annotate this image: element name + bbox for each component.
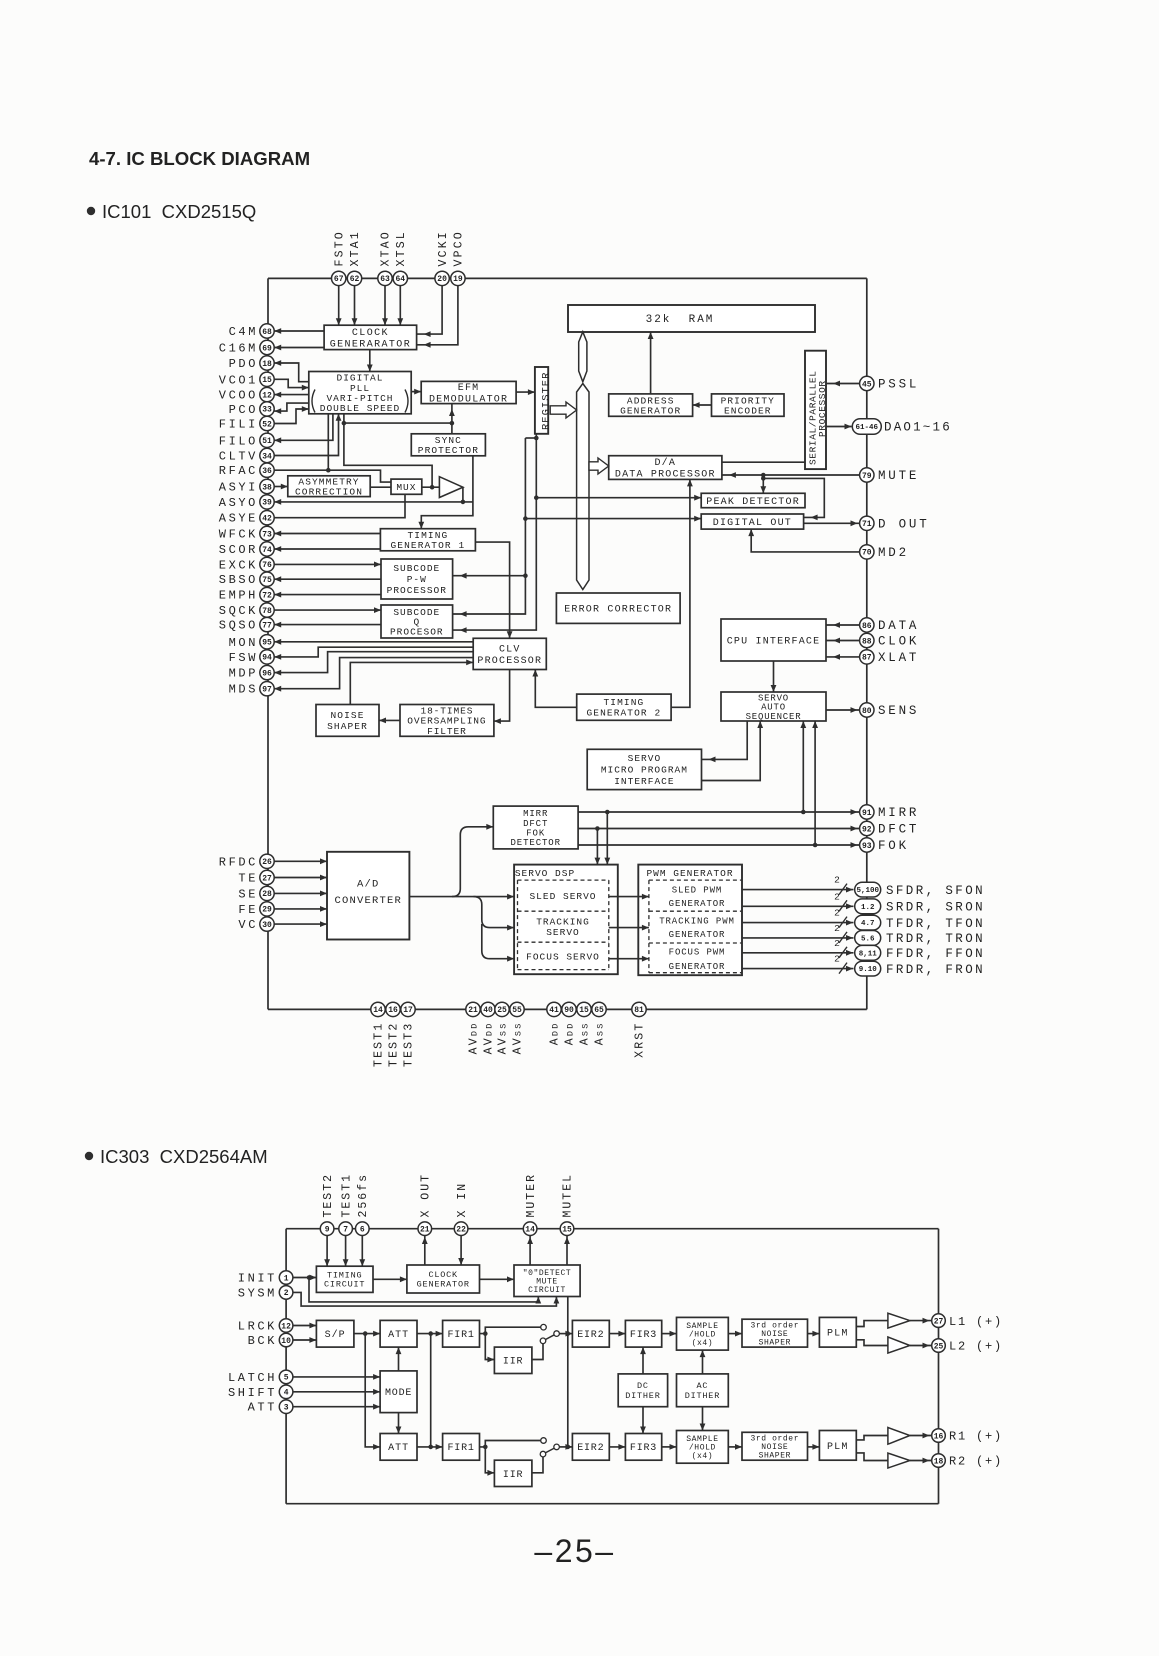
pin 81 XRST (bottom) <box>632 1002 647 1058</box>
pin 15 A<tspan style="font-size:8.5px">SS</tspan> (bottom) <box>577 1002 592 1045</box>
switch lower contact (R) <box>540 1451 546 1457</box>
wire: focus servo to focus PWM generator <box>609 958 649 960</box>
svg-text:GENERATOR: GENERATOR <box>417 1280 470 1290</box>
dashed partitions inside SERVO DSP <box>518 880 609 970</box>
box: EFM DEMODULATOR <box>421 381 516 405</box>
wire: pin 76 EXCK to subcode P-W processor <box>274 563 381 565</box>
pin 9.10 FRDR, FRON (servo output) <box>855 961 985 977</box>
wire: pin 15 VCO1 to PLL <box>274 379 309 387</box>
wire: register drop line B to subcode Q <box>453 434 537 630</box>
box: FIR3 (L) <box>625 1320 661 1347</box>
wire: PLL to EFM demodulator <box>411 391 421 393</box>
svg-text:51: 51 <box>262 437 272 446</box>
svg-text:FOCUS PWM: FOCUS PWM <box>669 948 726 958</box>
svg-text:PDO: PDO <box>229 357 258 371</box>
wire: top pin 63 XTAO to clock generator <box>384 286 386 326</box>
wire: FIR1 (L) output to switch upper contact <box>480 1327 541 1333</box>
svg-text:ASYI: ASYI <box>219 481 258 495</box>
svg-text:GENERARATOR: GENERARATOR <box>330 340 411 351</box>
svg-text:WFCK: WFCK <box>219 528 258 542</box>
pin 16 TEST2 (bottom) <box>386 1002 401 1067</box>
wire: MUTE branch to digital out right side <box>763 478 824 517</box>
wire: pin 52 FILI to PLL <box>274 409 309 424</box>
svg-text:ASYO: ASYO <box>219 496 258 510</box>
wire: pin 12 LRCK to S/P <box>293 1325 316 1327</box>
box: SAMPLE/HOLD x4 (R) <box>677 1431 729 1464</box>
svg-text:MIRR: MIRR <box>878 806 919 820</box>
box: DIGITAL PLL VARI-PITCH DOUBLE SPEED <box>309 372 411 415</box>
wire: pin 88 CLOK to CPU interface <box>826 640 860 642</box>
pin 55 AV<tspan style="font-size:8.5px">SS</tspan> (bottom) <box>510 1002 525 1054</box>
svg-text:DATA: DATA <box>878 619 919 633</box>
svg-text:39: 39 <box>262 499 272 508</box>
wire: oversampling filter to noise shaper <box>379 719 400 721</box>
svg-text:PROCESSOR: PROCESSOR <box>477 656 542 667</box>
wire: CPU interface to servo auto sequencer <box>773 661 775 692</box>
svg-text:45: 45 <box>862 380 872 389</box>
pin 14 TEST1 (bottom) <box>371 1002 386 1067</box>
wire: EFM demodulator to REGISTER <box>516 391 535 393</box>
wire: digital out to pin 71 D OUT <box>804 522 859 524</box>
box: PLM (L) <box>819 1317 856 1347</box>
svg-text:36: 36 <box>262 467 272 476</box>
svg-text:4-7. IC BLOCK DIAGRAM: 4-7. IC BLOCK DIAGRAM <box>89 148 310 169</box>
svg-text:SUBCODE: SUBCODE <box>393 563 440 574</box>
pin 74 SCOR (left) <box>219 542 274 557</box>
svg-text:(x4): (x4) <box>692 1452 714 1461</box>
svg-text:SCOR: SCOR <box>219 543 258 557</box>
svg-text:PROTECTOR: PROTECTOR <box>418 445 479 456</box>
pin 91 MIRR (right) <box>860 805 920 820</box>
wire: top pin 64 XTSL to clock generator <box>399 286 401 326</box>
wire: cross link between channel inputs <box>430 1334 432 1447</box>
box: SERVO DSP (outer) <box>514 865 618 975</box>
pin 97 MDS (left) <box>229 682 275 697</box>
svg-text:GENERATOR: GENERATOR <box>669 899 726 909</box>
svg-text:2: 2 <box>834 875 840 886</box>
svg-text:FOK: FOK <box>878 839 909 853</box>
svg-text:MUTEL: MUTEL <box>562 1173 575 1218</box>
svg-text:81: 81 <box>634 1006 644 1015</box>
box: SUBCODE Q PROCESOR <box>381 605 453 638</box>
svg-text:LRCK: LRCK <box>238 1320 277 1334</box>
svg-text:IC303 CXD2564AM: IC303 CXD2564AM <box>100 1146 268 1167</box>
svg-text:64: 64 <box>395 275 405 284</box>
pin 15 VCO1 (left) <box>219 372 274 387</box>
box: CPU INTERFACE <box>721 619 826 661</box>
svg-text:1: 1 <box>284 1274 289 1283</box>
svg-text:FSW: FSW <box>229 651 258 665</box>
wire: servo auto sequencer to pin 80 SENS <box>826 709 859 711</box>
svg-text:78: 78 <box>262 607 272 616</box>
box: PEAK DETECTOR <box>701 493 805 508</box>
wire: FIR1 (R) branch down to IIR (R) <box>485 1447 494 1473</box>
svg-text:NOISE: NOISE <box>330 710 364 721</box>
svg-text:GENERATOR: GENERATOR <box>669 962 726 972</box>
svg-text:TFDR, TFON: TFDR, TFON <box>886 917 985 931</box>
wire: address generator to 32k RAM <box>650 332 652 394</box>
svg-text:TIMING: TIMING <box>603 697 644 708</box>
svg-text:ENCODER: ENCODER <box>724 405 772 416</box>
svg-text:SENS: SENS <box>878 704 919 718</box>
box: 0 DETECT MUTE CIRCUIT <box>514 1265 580 1297</box>
svg-text:12: 12 <box>281 1322 291 1331</box>
svg-text:CLOCK: CLOCK <box>428 1270 458 1280</box>
switch pole (R) <box>554 1444 560 1450</box>
svg-text:8,11: 8,11 <box>859 950 878 958</box>
amp buffer triangle after MUX <box>439 477 463 498</box>
svg-text:AC: AC <box>696 1381 708 1391</box>
svg-text:XRST: XRST <box>634 1022 647 1058</box>
box: SAMPLE/HOLD x4 (L) <box>677 1317 729 1350</box>
wire: pin 28 SE to A/D converter <box>274 892 327 894</box>
svg-text:SERVO: SERVO <box>546 927 580 938</box>
svg-text:MON: MON <box>229 636 258 650</box>
wire: DC dither to FIR3 (L) <box>642 1347 644 1374</box>
svg-text:VCKI: VCKI <box>437 230 450 266</box>
wire: RFAC junction up to PLL <box>327 414 329 470</box>
wire: PWM output 6 to pin oval <box>742 954 854 974</box>
pin 76 EXCK (left) <box>219 557 274 572</box>
svg-text:62: 62 <box>350 275 360 284</box>
pin 16 R1 (+) (IC303 right) <box>932 1429 1003 1444</box>
wire: switch pole to EIR2 (R) <box>559 1446 572 1448</box>
svg-text:SEQUENCER: SEQUENCER <box>746 712 802 722</box>
wire: pin 36 RFAC to MUX upper input <box>274 470 391 482</box>
pin 72 EMPH (left) <box>219 587 274 602</box>
wire: pin 78 SQCK to subcode Q processor <box>274 609 381 611</box>
pin 65 A<tspan style="font-size:8.5px">SS</tspan> (bottom) <box>592 1002 607 1045</box>
box: 18-TIMES OVERSAMPLING FILTER <box>400 705 494 737</box>
pin 93 FOK (right) <box>860 838 909 853</box>
box: ADDRESS GENERATOR <box>609 394 693 416</box>
wire: pin 86 DATA to CPU interface <box>826 624 860 626</box>
svg-text:16: 16 <box>388 1006 398 1015</box>
wire: PLL to pin 33 PCO <box>274 403 309 411</box>
wire: pin 5 LATCH to MODE <box>293 1376 380 1378</box>
wire: asymmetry correction to MUX <box>370 486 391 488</box>
box: 32k RAM <box>568 305 815 332</box>
svg-text:7: 7 <box>343 1226 348 1235</box>
wire: timing generator 2 to D/A data processor <box>671 479 690 707</box>
svg-text:1.2: 1.2 <box>861 904 875 912</box>
wire: priority encoder to address generator <box>693 404 712 406</box>
svg-text:SHAPER: SHAPER <box>759 1339 791 1348</box>
wire: timing circuit to clock generator <box>373 1278 407 1280</box>
svg-text:5: 5 <box>284 1374 289 1383</box>
box: SERVO MICRO PROGRAM INTERFACE <box>587 749 701 789</box>
wire: noise shaper to CLV processor <box>350 662 473 704</box>
svg-text:42: 42 <box>262 515 272 524</box>
wire: clock generator to mute circuit <box>480 1278 515 1280</box>
svg-text:CLOK: CLOK <box>878 635 919 649</box>
wire: timing generator 1 to pin 74 SCOR <box>274 548 380 550</box>
box: D/A DATA PROCESSOR <box>609 456 722 481</box>
wire: switch pole to EIR2 (L) <box>559 1333 572 1335</box>
amp triangle L1 <box>888 1313 910 1328</box>
svg-text:FOCUS SERVO: FOCUS SERVO <box>526 952 600 963</box>
pin 40 AV<tspan style="font-size:8.5px">DD</tspan> (bottom) <box>481 1002 496 1054</box>
wire: sync protector down to ASYO line and timing generator 1 <box>421 456 473 529</box>
svg-text:80: 80 <box>862 707 872 716</box>
wire: PLM (L) to amp L2 <box>856 1340 888 1346</box>
wire: ATT (R) to FIR1 (R) <box>417 1446 443 1448</box>
wire: pin 9 TEST2 to timing circuit <box>326 1236 328 1267</box>
svg-text:92: 92 <box>862 825 872 834</box>
svg-text:AVSS: AVSS <box>497 1022 510 1055</box>
svg-text:IIR: IIR <box>503 1470 523 1481</box>
svg-text:SE: SE <box>238 887 258 901</box>
pin 1 INIT (IC303 left) <box>238 1271 293 1286</box>
svg-text:28: 28 <box>262 890 272 899</box>
svg-text:ATT: ATT <box>248 1401 277 1415</box>
pin 70 MD2 (right) <box>860 545 909 560</box>
wire: branch up to MIRR/DFCT/FOK detector <box>452 827 493 897</box>
pin 51 FILO (left) <box>219 433 274 448</box>
wire: EIR2 (R) to FIR3 (R) <box>609 1446 625 1448</box>
wire: ATT (L) to FIR1 (L) <box>417 1333 443 1335</box>
box: PRIORITY ENCODER <box>712 394 785 416</box>
svg-text:5,100: 5,100 <box>856 887 879 895</box>
wire: pin 4 SHIFT to MODE <box>293 1391 380 1393</box>
svg-text:TEST2: TEST2 <box>388 1022 401 1068</box>
box: TIMING CIRCUIT <box>316 1266 373 1292</box>
svg-text:MIRR: MIRR <box>523 809 548 819</box>
svg-text:MUTE: MUTE <box>878 469 919 483</box>
svg-text:12: 12 <box>262 391 272 400</box>
svg-text:73: 73 <box>262 530 272 539</box>
svg-text:PEAK DETECTOR: PEAK DETECTOR <box>706 497 800 508</box>
dashed partitions inside PWM GENERATOR <box>649 880 742 973</box>
svg-text:FILTER: FILTER <box>427 726 467 737</box>
svg-text:20: 20 <box>437 275 447 284</box>
svg-text:15: 15 <box>579 1006 589 1015</box>
box: ASYMMETRY CORRECTION <box>288 476 370 498</box>
svg-text:74: 74 <box>262 546 272 555</box>
pin 12 LRCK (IC303 left) <box>238 1319 293 1334</box>
wire: amp L1 to pin 27 <box>910 1320 931 1322</box>
svg-text:PLM: PLM <box>827 1329 849 1340</box>
svg-text:18: 18 <box>934 1457 944 1466</box>
svg-text:ERROR CORRECTOR: ERROR CORRECTOR <box>564 605 672 616</box>
svg-text:9.10: 9.10 <box>859 966 878 974</box>
pin 61-46 DAO1~16 (right) <box>852 419 952 435</box>
svg-text:95: 95 <box>262 639 272 648</box>
box: SUBCODE P-W PROCESSOR <box>381 559 453 599</box>
svg-text:256fs: 256fs <box>357 1173 370 1218</box>
svg-text:CPU INTERFACE: CPU INTERFACE <box>727 636 821 647</box>
svg-text:97: 97 <box>262 686 272 695</box>
svg-text:S/P: S/P <box>325 1329 346 1341</box>
pin 87 XLAT (right) <box>860 650 920 665</box>
wire: branch down to tracking servo <box>474 897 515 928</box>
pin 18 R2 (+) (IC303 right) <box>932 1454 1003 1469</box>
wire: pin 70 MD2 to digital out <box>751 529 859 552</box>
pin 18 PDO (left) <box>229 356 275 371</box>
svg-text:ASS: ASS <box>579 1022 592 1046</box>
pin 12 VCOO (left) <box>219 387 274 402</box>
svg-text:ASYE: ASYE <box>219 512 258 526</box>
bus arrow data bus to D/A DATA PROCESSOR <box>589 458 609 474</box>
svg-text:25: 25 <box>934 1342 944 1351</box>
pin 86 DATA (right) <box>860 618 920 633</box>
svg-text:67: 67 <box>334 275 344 284</box>
svg-text:17: 17 <box>403 1006 413 1015</box>
svg-text:XLAT: XLAT <box>878 651 919 665</box>
pin 20 VCKI (top) <box>435 230 450 286</box>
wire: S/P to ATT (L) <box>354 1333 380 1335</box>
svg-text:FIR1: FIR1 <box>447 1443 474 1454</box>
svg-text:ADD: ADD <box>564 1022 577 1046</box>
switch pole (L) <box>554 1331 560 1337</box>
svg-text:XTSL: XTSL <box>395 230 408 266</box>
wire: D/A data processor to serial/parallel processor <box>722 461 805 463</box>
pin 79 MUTE (right) <box>860 468 920 483</box>
svg-text:29: 29 <box>262 906 272 915</box>
wire: detector to pin 93 FOK <box>578 844 859 846</box>
svg-text:(x4): (x4) <box>692 1339 714 1348</box>
IC303 outer boundary <box>286 1229 938 1504</box>
svg-text:DIGITAL OUT: DIGITAL OUT <box>713 518 792 529</box>
box: SYNC PROTECTOR <box>411 434 485 456</box>
parentheses of DIGITAL PLL box <box>312 390 408 413</box>
svg-text:REGISTER: REGISTER <box>540 372 552 430</box>
box: FIR3 (R) <box>625 1434 661 1461</box>
box: MIRR DFCT FOK DETECTOR <box>493 806 578 849</box>
wire: FIR1 (R) output to switch upper contact <box>480 1441 541 1447</box>
pin 52 FILI (left) <box>219 416 274 431</box>
svg-text:16: 16 <box>934 1432 944 1441</box>
pin 25 AV<tspan style="font-size:8.5px">SS</tspan> (bottom) <box>495 1002 510 1054</box>
heading bullet IC101 <box>87 207 95 215</box>
IC101 outer boundary <box>268 278 867 1009</box>
pin 27 TE (left) <box>238 870 274 885</box>
wire: servo micro program interface to servo auto sequencer <box>702 721 761 781</box>
wire: detector to pin 91 MIRR <box>578 811 859 813</box>
box: S/P <box>316 1320 354 1347</box>
box: PLM (R) <box>819 1431 856 1461</box>
box: CLV PROCESSOR <box>473 638 546 669</box>
box: IIR (R) <box>494 1460 532 1486</box>
wire: clock generator to pin 69 C16M <box>274 347 324 349</box>
svg-text:68: 68 <box>262 328 272 337</box>
box: TIMING GENERATOR 2 <box>577 694 671 720</box>
svg-text:88: 88 <box>862 637 872 646</box>
svg-text:FOK: FOK <box>526 828 545 838</box>
svg-text:FILI: FILI <box>219 418 258 432</box>
pin 22 X IN (IC303 top) <box>454 1182 468 1236</box>
svg-text:FFDR, FFON: FFDR, FFON <box>886 947 985 961</box>
svg-text:6: 6 <box>360 1226 365 1235</box>
pin 7 TEST1 (IC303 top) <box>339 1173 353 1236</box>
box: DC DITHER <box>618 1374 667 1407</box>
wire: AC dither to sample/hold (L) <box>702 1350 704 1374</box>
svg-text:86: 86 <box>862 622 872 631</box>
pin 19 VPCO (top) <box>451 230 466 286</box>
wire: pin 45 PSSL to serial/parallel processor <box>826 383 860 385</box>
pin 17 TEST3 (bottom) <box>401 1002 416 1067</box>
wire: amp L2 to pin 25 <box>910 1345 931 1347</box>
svg-text:AVSS: AVSS <box>512 1022 525 1055</box>
svg-text:96: 96 <box>262 669 272 678</box>
svg-text:DOUBLE SPEED: DOUBLE SPEED <box>320 403 400 414</box>
wire: clock generator to pin 21 X OUT <box>424 1236 426 1266</box>
box: 3rd order NOISE SHAPER (R) <box>742 1432 808 1460</box>
box: FIR1 (R) <box>443 1434 480 1461</box>
pin 5 LATCH (IC303 left) <box>228 1370 293 1385</box>
svg-text:2: 2 <box>834 954 840 965</box>
svg-text:2: 2 <box>284 1289 289 1298</box>
pin 15 MUTEL (IC303 top) <box>560 1173 574 1236</box>
pin 78 SQCK (left) <box>219 603 274 618</box>
svg-text:D/A: D/A <box>654 457 676 469</box>
svg-text:9: 9 <box>325 1226 330 1235</box>
wire: mute circuit sense line down both channels <box>567 1297 569 1447</box>
RAM data bus (narrow, pointed) <box>579 332 587 382</box>
switch lower contact (L) <box>540 1338 546 1344</box>
wire: register drop line A to subcode processors <box>453 438 526 614</box>
svg-text:ATT: ATT <box>388 1330 409 1341</box>
svg-text:MUTER: MUTER <box>525 1173 538 1218</box>
svg-text:94: 94 <box>262 654 272 663</box>
svg-text:26: 26 <box>262 858 272 867</box>
wire: pin 10 BCK to S/P <box>293 1339 316 1341</box>
wire: MUTE branch to peak detector <box>762 475 764 493</box>
pin 6 256fs (IC303 top) <box>356 1173 370 1236</box>
box: MODE <box>380 1371 417 1413</box>
svg-text:93: 93 <box>862 842 872 851</box>
pin 69 C16M (left) <box>219 340 274 355</box>
svg-text:34: 34 <box>262 452 272 461</box>
svg-text:ASS: ASS <box>594 1022 607 1046</box>
svg-text:TRACKING: TRACKING <box>536 917 590 928</box>
wire: PLL to pin 12 VCOO <box>274 394 309 396</box>
wire: PLM (L) to amp L1 <box>856 1321 888 1327</box>
svg-text:EXCK: EXCK <box>219 558 258 572</box>
pin 3 ATT (IC303 left) <box>248 1400 293 1415</box>
svg-text:P-W: P-W <box>407 574 427 585</box>
svg-text:IIR: IIR <box>503 1357 523 1368</box>
pin 36 RFAC (left) <box>219 463 274 478</box>
svg-text:25: 25 <box>497 1006 507 1015</box>
svg-text:75: 75 <box>262 576 272 585</box>
wire: clock generator to digital PLL <box>369 350 371 372</box>
box: SERIAL/PARALLEL PROCESSOR (vertical) <box>805 351 828 469</box>
svg-text:XTAO: XTAO <box>380 230 393 266</box>
svg-text:VCO1: VCO1 <box>219 373 258 387</box>
wire: pin 30 VC to A/D converter <box>274 923 327 925</box>
svg-text:22: 22 <box>456 1226 466 1235</box>
pin 25 L2 (+) (IC303 right) <box>932 1339 1003 1354</box>
svg-text:MODE: MODE <box>385 1388 412 1399</box>
wire: pin 26 RFDC to A/D converter <box>274 860 327 862</box>
box: DIGITAL OUT <box>701 514 803 529</box>
svg-text:SQCK: SQCK <box>219 604 258 618</box>
svg-text:TRACKING PWM: TRACKING PWM <box>659 917 735 927</box>
svg-text:15: 15 <box>562 1226 572 1235</box>
svg-text:R1 (+): R1 (+) <box>949 1430 1003 1444</box>
svg-text:PROCESSOR: PROCESSOR <box>817 380 828 437</box>
svg-text:INIT: INIT <box>238 1272 277 1286</box>
box: IIR (L) <box>494 1347 532 1373</box>
svg-text:PCO: PCO <box>229 403 258 417</box>
svg-text:SQSO: SQSO <box>219 619 258 633</box>
switch blade (R) <box>545 1448 554 1453</box>
pin 34 CLTV (left) <box>219 448 274 463</box>
svg-text:SERVO DSP: SERVO DSP <box>515 868 575 879</box>
svg-text:CLOCK: CLOCK <box>352 328 389 339</box>
svg-text:GENERATOR 1: GENERATOR 1 <box>390 540 465 551</box>
